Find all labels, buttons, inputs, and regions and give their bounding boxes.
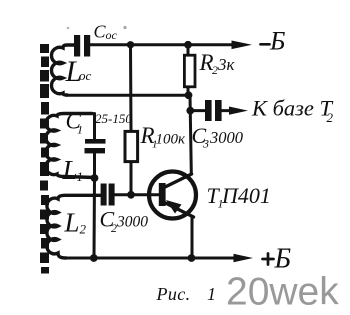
label C2 3000: [100, 207, 149, 236]
inductor L2: [47, 195, 101, 258]
arrow to +B: [234, 254, 254, 262]
junction node tank bottom: [91, 174, 99, 182]
capacitor C1 trimmer: [85, 114, 106, 179]
svg-text:1: 1: [77, 123, 83, 137]
svg-text:3000: 3000: [116, 214, 148, 231]
transistor T1 P401: [149, 172, 196, 219]
resistor R1 100k: [125, 45, 138, 195]
junction node R2 top: [184, 41, 192, 49]
svg-text:L: L: [62, 155, 78, 185]
label L2: [64, 208, 87, 238]
svg-text:2: 2: [80, 222, 87, 237]
wire Loc bottom to collector node: [66, 94, 188, 97]
label T1 P401: [207, 183, 271, 211]
wire bottom rail: [66, 257, 238, 260]
junction node tank on rail: [90, 254, 98, 262]
svg-text:1: 1: [207, 284, 216, 304]
svg-text:ос: ос: [106, 28, 118, 42]
wire tank bottom to +B rail: [93, 178, 97, 258]
label +B: [263, 254, 274, 265]
capacitor Coc: [74, 35, 90, 57]
svg-text:Рис.: Рис.: [156, 284, 191, 304]
arrow to -B: [232, 41, 253, 50]
inductor Loc: [51, 45, 75, 95]
label L1: [62, 155, 84, 185]
label -B: [261, 43, 270, 46]
svg-text:2: 2: [327, 110, 334, 125]
arrow to K baze T2: [229, 107, 248, 115]
svg-text:1: 1: [77, 169, 84, 184]
wire emitter to +B rail: [191, 217, 194, 259]
junction node R2 bottom: [185, 91, 193, 99]
label K baze T2: [251, 96, 334, 126]
decorative scanned page edge drawn first (unlabeled): [40, 44, 49, 274]
wire collector node vertical: [190, 95, 191, 173]
label R1 100k: [140, 123, 187, 151]
label C1: [66, 109, 84, 137]
svg-text:L: L: [64, 208, 80, 238]
capacitor C2 3000: [101, 184, 159, 206]
svg-text:ос: ос: [79, 68, 92, 83]
svg-text:100к: 100к: [156, 132, 187, 148]
scan speck: [67, 27, 70, 30]
resistor R2 3k: [184, 45, 195, 95]
svg-text:20wek: 20wek: [226, 271, 339, 314]
label R2 3k: [199, 50, 236, 77]
capacitor C3 3000: [190, 100, 235, 121]
svg-text:25-150: 25-150: [95, 111, 132, 126]
svg-text:3: 3: [202, 137, 209, 151]
svg-text:3к: 3к: [217, 55, 236, 74]
svg-text:К базе Т: К базе Т: [251, 96, 334, 121]
wire top rail: [90, 43, 237, 46]
svg-text:Б: Б: [269, 27, 285, 56]
svg-text:П401: П401: [221, 183, 271, 208]
junction node C3 tap: [186, 107, 194, 115]
junction node base: [127, 191, 135, 199]
junction node R1 top: [127, 41, 134, 48]
inductor L1: [46, 114, 95, 178]
junction node emitter on rail: [188, 254, 196, 262]
label C3 3000: [192, 123, 244, 151]
scan speck: [123, 26, 126, 29]
svg-text:3000: 3000: [209, 128, 244, 147]
